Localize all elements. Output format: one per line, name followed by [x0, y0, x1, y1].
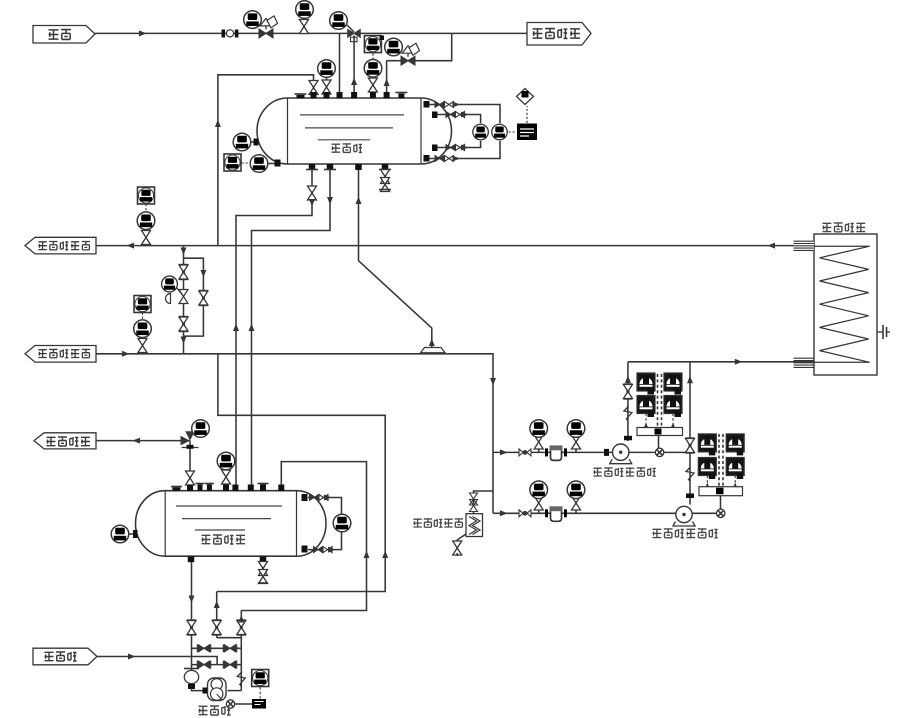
wire bottom nozzle x=358.5 down across HTF line, diagonal to funnel on LTF line — [359, 170, 432, 348]
wire level line 2 y=114.5 — [437, 115, 481, 124]
wire pump2 suction y=513.3 — [493, 512, 676, 514]
instrument beside PSV — [192, 420, 210, 438]
strainer pot on pump suction — [184, 668, 199, 670]
label 膨胀罐 — [332, 144, 341, 152]
flag 外供油 (external oil supply) — [33, 648, 97, 665]
furnace 导热油炉 box — [814, 234, 877, 375]
black recorder box — [517, 124, 537, 141]
instrument attached diagonally to x=354 valve — [347, 25, 354, 32]
ball valve pump2 suction — [519, 510, 531, 517]
boxed instrument + LI at lower left head — [224, 154, 241, 171]
pump2 导热油循环泵 — [673, 506, 695, 526]
wire bottom nozzle x=330 down, bend left at y=230.5 to x=251.5 — [252, 170, 331, 487]
tank top nozzles — [311, 92, 317, 99]
flag 高温导热油 (hot oil supply) — [25, 237, 96, 254]
valve lower on letdown — [179, 317, 188, 332]
wire level line 1 y=104.5 — [429, 105, 500, 124]
instrument stack x=226 on lower tank — [222, 470, 231, 484]
cluster2 boxed instruments — [698, 434, 716, 456]
wire riser x=339.5 (to nitrogen line) — [339, 33, 341, 98]
cluster1 boxed instruments — [637, 373, 655, 395]
valve on bypass — [199, 291, 208, 306]
wire pump2 discharge stub to otimes2 — [692, 512, 717, 514]
wire furnace feed line y=361.8 — [628, 361, 814, 363]
control valve TV on letdown with instrument — [179, 290, 188, 304]
flag 安全排放 top right — [527, 23, 591, 46]
pump1 导热油循环泵 — [610, 444, 632, 464]
wire nitrogen main line y=33.4 — [95, 32, 527, 34]
instrument stack on HTF header x=146 : box + PI + valve — [138, 187, 155, 204]
cluster1 signal dashes — [657, 374, 659, 426]
furnace coil — [814, 246, 870, 362]
label 热媒储罐 — [202, 535, 211, 543]
wire LTF return header y=353.8 to x=493 then down — [96, 354, 493, 514]
label 导热油循环泵 pump2 — [652, 529, 661, 537]
flow arrow up x=236 — [233, 324, 239, 332]
cluster2 stem to otimes — [720, 496, 722, 509]
wire pump1 discharge through otimes to riser x=690 — [629, 451, 686, 453]
label 注油泵 — [199, 706, 208, 714]
wire manifold y=664.6 — [192, 664, 242, 666]
tank internal lines — [176, 505, 282, 507]
control valve on y=60.7 — [401, 56, 415, 65]
label 导热油循环泵 pump1 — [593, 468, 601, 476]
valve on nitrogen line x=354 with drip box — [348, 29, 361, 37]
lower tank top nozzles — [187, 485, 193, 492]
orifice / reducer on nitrogen line x=230 — [222, 30, 226, 38]
wire external oil line y=656.5 with jog at x=217.1 — [97, 657, 217, 665]
otimes sensor pump2 — [717, 509, 725, 517]
wire riser x=216.7 (bridge at 637.7) up to y=591.5 — [216, 592, 218, 638]
wire bypass loop to x=203.4 — [184, 258, 204, 336]
cluster2 manifold bar — [699, 487, 743, 496]
lower tank right side loop — [302, 494, 308, 501]
flow arrow up x=251.5 — [249, 324, 255, 332]
instrument TI at left head — [251, 141, 258, 143]
strainer pump1 — [547, 445, 566, 460]
signal dash up to diamond — [526, 106, 528, 123]
wire riser x=386.6 + control valve line y=60.7 to x=451.7 up to nitrogen line — [386, 61, 388, 98]
injection pump 注油泵 (gear pump) — [208, 678, 227, 701]
valves line1 — [435, 102, 444, 108]
vessel heat medium tank 热媒储罐 — [135, 491, 326, 557]
cluster2 signal dashes — [718, 434, 720, 486]
wire riser x=690 pump2 discharge — [689, 362, 691, 505]
flow arrow up on x=217.9 — [215, 120, 221, 128]
drain nozzle x=385 double valve capped — [384, 170, 386, 188]
wire pump discharge right to riser x=241.3 — [228, 690, 242, 692]
furnace inlet hatched nozzle (bottom left) — [794, 357, 815, 359]
instrument LG1 — [473, 124, 488, 139]
wire PSV discharge line y=440.6 — [96, 440, 190, 442]
ball valve pump1 suction — [519, 449, 531, 456]
instrument on loop vertical — [333, 514, 351, 532]
funnel on LTF line — [421, 348, 446, 353]
wire level line 4 y=158.5 — [429, 141, 500, 159]
wire PSV riser to lower tank — [189, 441, 191, 487]
boxed instrument at injection pump — [252, 670, 269, 687]
valve on riser x=313.5 — [309, 81, 318, 95]
wire riser x=354.1 from nitrogen valve to tank — [353, 36, 355, 99]
vessel expansion tank 膨胀罐 — [257, 98, 452, 164]
instrument beside control valve — [385, 38, 403, 56]
wire riser x=627.9 pump1 discharge to furnace feed line — [627, 362, 629, 441]
sample cooler 取样冷却器 — [466, 514, 483, 537]
instrument stack x=576 — [575, 445, 577, 452]
valves lower right loop — [314, 547, 323, 553]
valves upper right loop — [310, 495, 319, 501]
control valve PV on nitrogen line x=266 — [259, 29, 273, 38]
furnace right stub — [877, 331, 883, 333]
wire bottom nozzle x=312 down, valve, bend left at y=215.5 to x=236 — [236, 170, 312, 487]
instrument stack x=538.7 lower — [538, 506, 540, 513]
label 取样冷却器 — [413, 519, 421, 527]
strainer pump2 — [547, 506, 566, 521]
instrument stack on LTF header x=142 — [134, 296, 151, 313]
otimes sensor pump1 — [655, 448, 663, 456]
wire letdown branch x=183.5 from HTF to LTF — [183, 246, 185, 354]
lower tank bottom nozzles — [188, 556, 195, 562]
wire manifold y=648.3 — [192, 647, 242, 649]
wire riser x=313.5 to loop y=74.8 going left to x=217.9 — [218, 75, 314, 245]
furnace outlet hatched nozzle (top left) — [794, 241, 815, 251]
flag 氮气 (nitrogen inlet) — [33, 26, 95, 44]
wire lower tank riser x=281.3 to y=461.6 right to x=366.5 down to y=610.5 left to x=241.3 — [241, 462, 366, 611]
valve on PSV riser — [186, 471, 195, 485]
safety relief valve (angle) x=190 — [181, 436, 191, 446]
instrument stack x=576 lower — [575, 506, 577, 513]
wire branch to sample cooler — [474, 491, 494, 514]
cluster1 stem to otimes — [658, 436, 660, 449]
double valve on sample cooler inlet — [470, 493, 478, 512]
flag 安全排放 left — [34, 433, 96, 449]
valves line2 — [446, 112, 455, 118]
valves line4 — [435, 156, 444, 162]
wire tank drain x=191.5 down to injection circuit — [191, 562, 193, 670]
otimes at pump — [226, 700, 234, 708]
wire pump suction — [192, 688, 207, 691]
instrument PIC beside control valve — [244, 11, 262, 29]
label 导热油炉 — [822, 223, 831, 231]
wire sample cooler drain — [457, 534, 466, 543]
instrument PI on nitrogen line x=304 — [300, 20, 309, 34]
diamond interlock symbol — [517, 89, 534, 105]
instrument stack nozzle x=326.5 : valve + PI — [326, 77, 328, 95]
flag 低温导热油 (cold oil return) — [25, 346, 96, 363]
right head nozzles — [424, 101, 430, 108]
wire HTF supply header y=245.6 — [96, 245, 814, 247]
valve upper on letdown — [179, 265, 188, 280]
manhole + capped nozzles — [171, 486, 182, 488]
signal dashes to LSH box — [509, 131, 517, 133]
wire level line 3 y=147.5 — [437, 141, 481, 148]
cluster1 manifold bar — [637, 428, 683, 436]
drain x=263 double valve — [262, 562, 264, 582]
motor starter black box — [252, 699, 266, 709]
instrument LG2 — [492, 124, 507, 139]
instrument stack nozzle x=372.9 : valve + LT + box LIC — [372, 77, 374, 95]
vent nozzle right (capped) — [395, 92, 407, 94]
instrument at left head of lower tank — [129, 533, 137, 535]
instrument stack x=538.7 — [538, 445, 540, 452]
valves line3 — [446, 145, 455, 151]
flow arrow nitrogen — [139, 30, 147, 36]
manhole nozzle left — [295, 93, 307, 95]
wire riser x=241.3 up to y=610.5 — [240, 611, 242, 691]
tank bottom nozzles — [309, 164, 316, 170]
wire pump1 suction y=452.4 — [493, 451, 613, 453]
tank internal level lines — [300, 114, 404, 116]
wire x=217.9 header continues below LTF to y=415.3 then right to x=385.2 then down — [217, 354, 386, 592]
